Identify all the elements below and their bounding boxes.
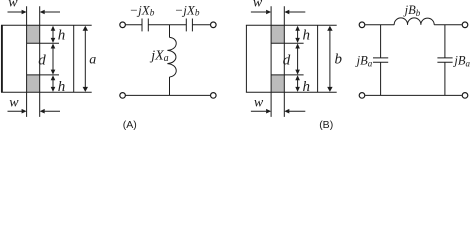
svg-text:jXa: jXa xyxy=(149,49,168,65)
svg-text:(B): (B) xyxy=(319,119,333,131)
svg-text:jBa: jBa xyxy=(355,53,373,68)
svg-text:b: b xyxy=(335,51,343,67)
svg-text:w: w xyxy=(8,0,18,11)
svg-text:w: w xyxy=(254,96,264,111)
svg-text:(A): (A) xyxy=(123,119,137,131)
svg-text:w: w xyxy=(253,0,263,11)
svg-text:h: h xyxy=(58,28,66,44)
svg-text:−jXb: −jXb xyxy=(129,2,154,18)
svg-text:w: w xyxy=(9,96,19,111)
svg-text:h: h xyxy=(303,28,311,44)
svg-text:−jXb: −jXb xyxy=(175,2,200,18)
svg-text:h: h xyxy=(58,79,66,95)
svg-text:jBb: jBb xyxy=(403,3,421,18)
svg-text:d: d xyxy=(38,52,46,68)
svg-text:a: a xyxy=(89,52,96,67)
svg-text:jBa: jBa xyxy=(452,53,470,68)
svg-text:h: h xyxy=(303,79,311,95)
svg-text:d: d xyxy=(283,52,291,68)
